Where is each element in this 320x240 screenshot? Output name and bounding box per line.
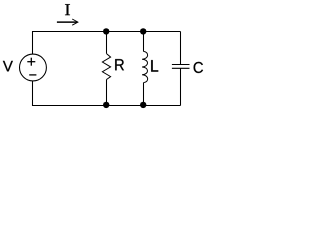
inductor L coil body: [142, 51, 148, 82]
label L (inductor): [151, 60, 158, 72]
voltage source V circle: [20, 54, 47, 81]
inductor L bottom lead: [143, 83, 145, 106]
label C (capacitor): [194, 62, 203, 73]
wire bottom (node B: C bottom back to source-): [33, 81, 181, 105]
resistor R top lead: [106, 32, 108, 54]
resistor R bottom lead: [106, 80, 108, 106]
current I arrow shaft: [57, 21, 77, 23]
resistor R zigzag body: [102, 54, 110, 80]
voltage source plus sign: [27, 58, 35, 66]
junction dot: R bottom node: [103, 102, 109, 108]
junction dot: L top node: [140, 28, 146, 34]
capacitor C plates: [172, 65, 190, 69]
label R (resistor): [115, 59, 124, 70]
wire top (node A: source+ across to R, L, C tops): [33, 32, 181, 55]
inductor L top lead: [143, 32, 145, 52]
capacitor C bottom lead: [180, 68, 182, 105]
junction dot: L bottom node: [140, 102, 146, 108]
voltage source minus sign: [29, 74, 36, 76]
label V (source): [3, 61, 13, 71]
junction dot: R top node: [103, 28, 109, 34]
label I (current): [65, 4, 70, 15]
current I arrow head: [72, 19, 78, 25]
capacitor C top lead: [180, 32, 182, 65]
